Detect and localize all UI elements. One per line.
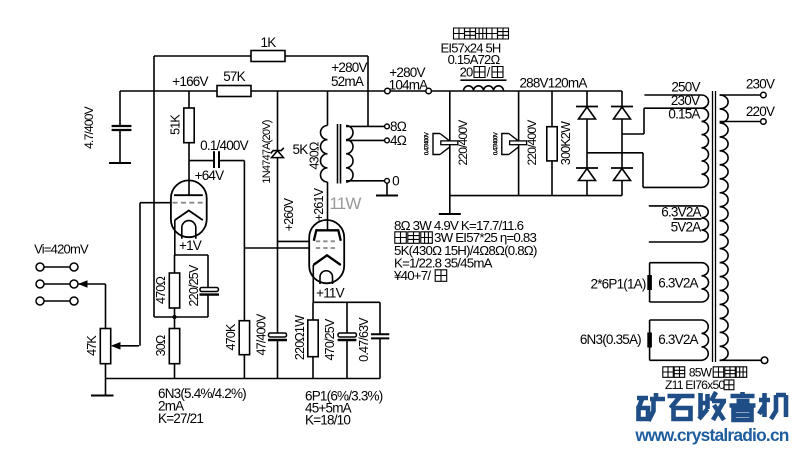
wire plate node	[189, 160, 214, 162]
wire ground rail amp	[106, 378, 381, 380]
tube V2 cathode	[313, 255, 341, 265]
svg-text:57K: 57K	[223, 69, 245, 84]
tube V2 plate	[314, 230, 341, 241]
wire +11V node	[313, 301, 380, 303]
wire 230V tap	[644, 107, 702, 109]
logo crystalradio glyph2 shi	[668, 396, 695, 419]
svg-text:288V120mA: 288V120mA	[519, 76, 587, 91]
tube V1 envelope 6N3	[171, 180, 207, 237]
ground PSU	[449, 196, 451, 214]
svg-text:6.3V2A: 6.3V2A	[658, 276, 698, 291]
wire 250V tap	[644, 94, 701, 96]
svg-text:5V2A: 5V2A	[671, 220, 702, 235]
tube V1 plate	[174, 194, 203, 196]
wire bridge left column	[586, 91, 588, 196]
logo crystalradio glyph3 shou	[699, 392, 726, 420]
capacitor C8 220/400V with 0.47/400V	[518, 91, 520, 196]
transformer T2 filament 6P1	[650, 262, 702, 264]
svg-text:220/400V: 220/400V	[525, 120, 539, 166]
svg-text:+64V: +64V	[195, 168, 224, 183]
terminal B+ left	[385, 88, 391, 94]
wire 8ohm tap	[346, 125, 384, 127]
wire mains bottom	[720, 359, 762, 361]
tube V1 grid	[173, 202, 204, 204]
svg-text:0: 0	[392, 174, 399, 189]
resistor R3 51K	[188, 91, 190, 108]
transformer T1 primary 5K 430ohm	[320, 126, 327, 183]
svg-text:8Ω: 8Ω	[390, 119, 407, 134]
svg-text:470Ω: 470Ω	[154, 277, 168, 304]
svg-text:47K: 47K	[85, 335, 99, 356]
svg-text:K=27/21: K=27/21	[158, 411, 203, 426]
label T2 name CJK 85W	[663, 367, 674, 378]
diode D5	[611, 167, 633, 169]
wire zener column	[277, 91, 279, 151]
svg-text:+1V: +1V	[179, 238, 202, 253]
arrow input row2	[80, 281, 88, 287]
wire 0 tap	[346, 180, 384, 182]
svg-text:K=18/10: K=18/10	[305, 413, 350, 428]
svg-text:4Ω: 4Ω	[390, 133, 407, 148]
resistor R2 57K	[217, 86, 251, 97]
resistor R8 220ohm1W	[312, 302, 314, 320]
wire bridge right column	[621, 91, 623, 196]
svg-text:+261V: +261V	[312, 187, 326, 221]
tube V1 cathode	[175, 211, 203, 221]
transformer T2 HV winding	[702, 95, 709, 187]
logo crystalradio glyph4 yin	[730, 392, 756, 420]
ground OT secondary	[386, 183, 388, 195]
svg-text:6.3V2A: 6.3V2A	[658, 332, 698, 347]
svg-text:2*6P1(1A): 2*6P1(1A)	[591, 277, 646, 292]
svg-text:220Ω1W: 220Ω1W	[293, 315, 307, 360]
svg-text:+260V: +260V	[282, 197, 296, 231]
tube V1 heater	[182, 221, 196, 239]
ground C1	[109, 162, 131, 164]
wire V1 cathode lead	[174, 220, 176, 255]
wire C1 top lead	[119, 91, 121, 126]
wire B+ rail	[251, 90, 622, 92]
svg-text:+11V: +11V	[316, 286, 344, 301]
logo crystalradio glyph5 ji	[759, 393, 786, 419]
svg-text:www.crystalradio.cn: www.crystalradio.cn	[634, 425, 788, 445]
wire zener to g2 +260V	[277, 158, 279, 335]
wire +1V node	[175, 254, 209, 256]
label choke CJK	[454, 28, 465, 39]
svg-text:47/400V: 47/400V	[255, 313, 269, 355]
wire mains 230V	[720, 94, 761, 96]
wire PSU ground rail	[450, 195, 622, 197]
svg-text:104mA: 104mA	[389, 78, 429, 93]
capacitor C1 4.7/400V	[112, 125, 132, 127]
capacitor C7 220/400V with 0.47/400V	[449, 91, 451, 196]
arrow pot wiper	[112, 343, 120, 349]
diode D3	[611, 106, 633, 108]
svg-text:51K: 51K	[169, 114, 183, 135]
transformer T2 core	[712, 91, 714, 362]
wire coupling vertical	[243, 161, 245, 248]
svg-text:230V: 230V	[746, 77, 775, 92]
wire V2 g2 lead	[278, 240, 310, 242]
wire 4ohm tap	[346, 139, 384, 141]
wire V1 plate lead	[188, 161, 190, 196]
wire feedback right vertical	[367, 56, 369, 126]
wire V2 cathode lead	[312, 265, 314, 302]
wire V1 grid lead	[140, 202, 171, 204]
wire bridge AC2 to winding bottom	[587, 152, 643, 154]
wire pot wiper	[113, 345, 139, 347]
svg-text:11W: 11W	[329, 194, 361, 213]
svg-text:1K: 1K	[261, 35, 277, 50]
resistor R5 30ohm	[174, 317, 176, 329]
terminal B+ right	[426, 88, 432, 94]
transformer T2 mains winding	[720, 95, 729, 360]
wire V2 plate lead +261V	[327, 182, 329, 230]
svg-text:52mA: 52mA	[331, 74, 364, 89]
transformer T1 secondary	[346, 126, 353, 183]
svg-text:0.15A: 0.15A	[668, 107, 700, 122]
logo crystalradio glyph1 kuang	[637, 393, 665, 421]
svg-text:470/25V: 470/25V	[323, 318, 337, 360]
wire mains 220V	[720, 121, 761, 123]
resistor R10 300K2W	[551, 91, 553, 127]
svg-text:Z11 EI76x50: Z11 EI76x50	[665, 378, 725, 392]
ground pot	[105, 379, 107, 396]
capacitor C4 47/400V	[269, 333, 287, 337]
tube V2 g1	[316, 247, 335, 249]
svg-text:220/25V: 220/25V	[187, 264, 201, 306]
wire feedback rail	[154, 55, 368, 57]
wire feedback to cathode junction	[154, 316, 208, 318]
wire input to pot	[105, 284, 107, 329]
svg-text:+166V: +166V	[172, 74, 208, 89]
svg-text:220V: 220V	[746, 104, 775, 119]
svg-text:+280V: +280V	[331, 60, 367, 75]
svg-text:0.1/400V: 0.1/400V	[200, 138, 248, 153]
svg-text:20: 20	[460, 65, 473, 80]
svg-text:6N3(0.35A): 6N3(0.35A)	[580, 332, 641, 347]
resistor R9 1K feedback	[251, 51, 285, 62]
wire V2 g1 lead	[244, 247, 309, 249]
resistor R7 470K	[243, 248, 245, 321]
capacitor C2 0.1/400V	[213, 151, 215, 168]
tube V2 envelope 6P1	[309, 220, 344, 283]
wire OT primary top	[327, 91, 329, 126]
svg-text:0.47/63V: 0.47/63V	[357, 317, 371, 362]
svg-text:6.3V2A: 6.3V2A	[661, 205, 701, 220]
svg-text:1N4747A(20V): 1N4747A(20V)	[261, 120, 273, 183]
svg-text:300K2W: 300K2W	[559, 121, 573, 165]
svg-text:¥40+7/: ¥40+7/	[393, 268, 431, 283]
svg-text:4.7/400V: 4.7/400V	[82, 106, 96, 148]
svg-text:0.47/400V: 0.47/400V	[424, 131, 431, 155]
capacitor C6 0.47/63V	[379, 302, 381, 334]
diode D2	[576, 106, 598, 108]
input jack row2	[44, 283, 70, 285]
zener D1 1N4747A	[272, 151, 284, 158]
capacitor C5 470/25V	[346, 302, 348, 333]
svg-text:30Ω: 30Ω	[154, 335, 168, 356]
wire pot bottom	[105, 364, 107, 379]
inductor L1 choke	[460, 79, 506, 81]
diode D4	[576, 167, 598, 169]
tube V2 heater	[320, 271, 333, 284]
svg-text:5K: 5K	[293, 142, 309, 157]
svg-text:430Ω: 430Ω	[308, 142, 322, 169]
svg-text:Vi=420mV: Vi=420mV	[34, 242, 89, 257]
transformer T2 filament 6N3	[650, 319, 702, 321]
svg-text:470K: 470K	[224, 323, 238, 350]
wire feedback left vertical	[153, 56, 155, 317]
svg-text:0.15A72Ω: 0.15A72Ω	[448, 52, 501, 67]
input jack row3	[44, 300, 70, 302]
transformer T1 core	[337, 124, 339, 184]
svg-text:0.47/400V: 0.47/400V	[492, 131, 499, 155]
capacitor C3 220/25V	[207, 255, 209, 288]
transformer T2 filament 6.3V2A 5V2A	[649, 205, 702, 207]
label PSU notes r2	[395, 232, 407, 244]
potentiometer R6 47K	[100, 329, 110, 364]
wire +166V rail	[120, 90, 217, 92]
svg-text:220/400V: 220/400V	[456, 120, 470, 166]
tube V2 g2	[316, 240, 335, 242]
resistor R4 470ohm	[174, 255, 176, 273]
wire bridge AC1 to 230V tap	[622, 133, 644, 135]
input jack row1	[44, 266, 70, 268]
junction dot cathode network	[172, 315, 176, 319]
